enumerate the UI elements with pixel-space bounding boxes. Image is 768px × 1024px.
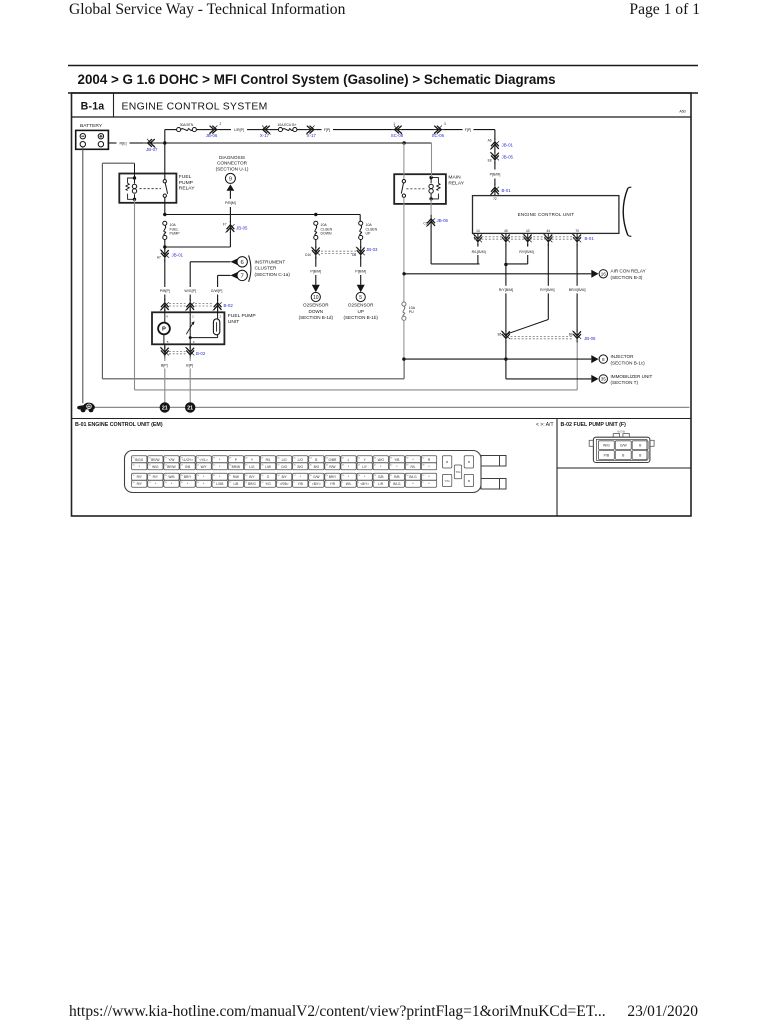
svg-text:BR/W: BR/W <box>232 465 240 469</box>
svg-text:2: 2 <box>220 122 222 126</box>
svg-text:Y/G: Y/G <box>445 479 451 483</box>
svg-text:JB-05: JB-05 <box>502 155 514 160</box>
svg-text:JB-05: JB-05 <box>437 218 449 223</box>
svg-text:D10: D10 <box>305 253 311 257</box>
svg-text:B/LG: B/LG <box>393 482 401 486</box>
svg-text:L/R[P]: L/R[P] <box>234 128 244 132</box>
svg-text:L/W: L/W <box>265 465 271 469</box>
svg-text:B: B <box>446 460 448 464</box>
svg-text:G/BR: G/BR <box>329 458 337 462</box>
svg-text:B-02: B-02 <box>224 303 234 308</box>
svg-text:A7: A7 <box>157 255 161 259</box>
svg-text:DIAGNOSIS: DIAGNOSIS <box>219 155 245 160</box>
svg-text:P[B/M]: P[B/M] <box>490 173 501 177</box>
svg-text:70: 70 <box>575 229 579 233</box>
svg-text:9: 9 <box>229 176 232 182</box>
svg-text:B/O: B/O <box>314 465 320 469</box>
svg-text:R/Y: R/Y <box>137 482 143 486</box>
svg-text:X-17: X-17 <box>307 133 317 138</box>
svg-text:UP: UP <box>358 309 364 314</box>
svg-text:FUEL PUMP: FUEL PUMP <box>228 313 256 319</box>
svg-text:JB-05: JB-05 <box>236 225 248 230</box>
svg-text:L/O: L/O <box>298 458 304 462</box>
svg-text:B5: B5 <box>498 332 502 336</box>
svg-text:MAIN: MAIN <box>448 175 461 181</box>
svg-text:L/R: L/R <box>378 482 384 486</box>
svg-text:2004 > G 1.6 DOHC > MFI Contro: 2004 > G 1.6 DOHC > MFI Control System (… <box>78 72 556 87</box>
svg-text:10A ECU B+: 10A ECU B+ <box>277 123 296 127</box>
svg-text:JB-01: JB-01 <box>172 252 184 257</box>
svg-text:35: 35 <box>601 377 607 382</box>
svg-text:B/O/B: B/O/B <box>617 430 625 434</box>
svg-text:B[P]: B[P] <box>186 364 193 368</box>
svg-text:C6: C6 <box>423 221 427 225</box>
svg-text:(SECTION T): (SECTION T) <box>611 380 639 385</box>
svg-text:<R/B>: <R/B> <box>280 482 289 486</box>
svg-text:B/Y: B/Y <box>282 475 288 479</box>
svg-text:<Y/L>: <Y/L> <box>199 458 208 462</box>
svg-text:CONNECTOR: CONNECTOR <box>217 161 248 166</box>
svg-text:<B/Y>: <B/Y> <box>312 482 321 486</box>
svg-text:W/G: W/G <box>378 458 385 462</box>
svg-text:P/B: P/B <box>604 454 610 458</box>
svg-text:W/Y: W/Y <box>201 465 208 469</box>
svg-text:R/L[B/M]: R/L[B/M] <box>472 250 486 254</box>
svg-text:W/G: W/G <box>603 444 610 448</box>
svg-text:L/B: L/B <box>233 482 238 486</box>
svg-text:UP: UP <box>366 232 372 236</box>
svg-text:B/G: B/G <box>298 465 304 469</box>
svg-text:B-01 ENGINE CONTROL UNIT (EM): B-01 ENGINE CONTROL UNIT (EM) <box>75 422 163 428</box>
svg-text:R/L: R/L <box>266 458 271 462</box>
svg-text:R/Y[B/M]: R/Y[B/M] <box>540 288 554 292</box>
svg-text:W/B: W/B <box>168 475 174 479</box>
svg-text:B-02 FUEL PUMP UNIT (F): B-02 FUEL PUMP UNIT (F) <box>561 422 627 428</box>
svg-text:44: 44 <box>547 229 551 233</box>
svg-text:L/Y: L/Y <box>362 465 368 469</box>
svg-text:B6: B6 <box>569 332 573 336</box>
svg-text:P: P <box>235 458 237 462</box>
svg-text:21: 21 <box>162 405 168 411</box>
svg-text:BATTERY: BATTERY <box>80 123 103 129</box>
svg-text:F[P]: F[P] <box>324 128 331 132</box>
svg-text:(SECTION B-1d): (SECTION B-1d) <box>299 315 334 320</box>
svg-text:B-1a: B-1a <box>81 101 105 113</box>
svg-text:P/B[M]: P/B[M] <box>225 201 236 205</box>
svg-text:RELAY: RELAY <box>179 186 195 192</box>
svg-text:L: L <box>348 458 350 462</box>
svg-text:(SECTION B-3): (SECTION B-3) <box>611 275 643 280</box>
svg-text:DOWN: DOWN <box>309 309 324 314</box>
svg-text:Y/B: Y/B <box>298 482 303 486</box>
svg-text:(SECTION C-1a): (SECTION C-1a) <box>255 272 291 277</box>
svg-text:G/W: G/W <box>313 475 319 479</box>
svg-text:Y/G: Y/G <box>265 482 271 486</box>
svg-text:https://www.kia-hotline.com/ma: https://www.kia-hotline.com/manualV2/con… <box>69 1003 606 1020</box>
svg-text:R/Y: R/Y <box>153 475 159 479</box>
svg-text:Y/B: Y/B <box>394 458 399 462</box>
svg-text:< >: A/T: < >: A/T <box>536 422 554 428</box>
svg-text:B/Y: B/Y <box>249 475 255 479</box>
svg-text:IMMOBILIZER UNIT: IMMOBILIZER UNIT <box>611 374 653 379</box>
svg-text:P[B/M]: P[B/M] <box>310 270 321 274</box>
svg-text:R/W: R/W <box>329 465 335 469</box>
svg-text:JB-06: JB-06 <box>206 133 218 138</box>
svg-text:ENGINE CONTROL UNIT: ENGINE CONTROL UNIT <box>518 212 575 217</box>
svg-text:10: 10 <box>313 295 319 301</box>
svg-text:O2SENSOR: O2SENSOR <box>303 303 329 308</box>
svg-text:G/O: G/O <box>281 465 287 469</box>
svg-text:16: 16 <box>601 271 607 276</box>
svg-text:CLUSTER: CLUSTER <box>255 266 277 271</box>
svg-text:L/G: L/G <box>282 458 288 462</box>
svg-text:3: 3 <box>444 122 446 126</box>
svg-text:RELAY: RELAY <box>448 180 464 186</box>
svg-text:72: 72 <box>493 197 497 201</box>
svg-text:(SECTION B-1c): (SECTION B-1c) <box>611 360 646 365</box>
svg-text:P: P <box>162 327 166 333</box>
svg-text:5: 5 <box>359 295 362 301</box>
svg-text:O/B: O/B <box>185 465 191 469</box>
svg-text:BR/W: BR/W <box>151 458 159 462</box>
svg-text:<L/GY>: <L/GY> <box>182 458 193 462</box>
svg-text:P[B/M]: P[B/M] <box>355 270 366 274</box>
svg-text:G/W[P]: G/W[P] <box>211 289 223 293</box>
svg-text:JB-01: JB-01 <box>502 143 514 148</box>
svg-text:B: B <box>468 479 470 483</box>
svg-text:PU: PU <box>409 310 414 314</box>
svg-text:B: B <box>315 458 317 462</box>
svg-text:DOWN: DOWN <box>321 232 333 236</box>
svg-text:O2SENSOR: O2SENSOR <box>348 303 374 308</box>
svg-text:A6D: A6D <box>679 110 686 114</box>
svg-text:(SECTION B-1b): (SECTION B-1b) <box>343 315 378 320</box>
svg-text:G/W: G/W <box>620 444 628 448</box>
svg-text:1: 1 <box>393 122 395 126</box>
svg-text:INSTRUMENT: INSTRUMENT <box>255 259 286 264</box>
svg-text:FUEL: FUEL <box>179 174 192 180</box>
svg-text:E8: E8 <box>488 159 492 163</box>
svg-text:Y/R: Y/R <box>330 482 336 486</box>
svg-text:BR/G: BR/G <box>248 482 256 486</box>
svg-text:BR/X[B/M]: BR/X[B/M] <box>569 288 586 292</box>
svg-text:L/GB: L/GB <box>216 482 223 486</box>
svg-text:23/01/2020: 23/01/2020 <box>627 1003 698 1020</box>
svg-text:Y/W: Y/W <box>168 458 174 462</box>
svg-text:L/G: L/G <box>249 465 255 469</box>
svg-text:A6: A6 <box>488 139 492 143</box>
svg-text:JB-03: JB-03 <box>366 247 378 252</box>
svg-text:B-01: B-01 <box>585 236 595 241</box>
svg-text:JB-05: JB-05 <box>584 336 596 341</box>
svg-text:ENGINE CONTROL SYSTEM: ENGINE CONTROL SYSTEM <box>122 101 268 112</box>
svg-text:B/GG: B/GG <box>135 458 143 462</box>
svg-text:F[P]: F[P] <box>465 128 472 132</box>
svg-text:W/L: W/L <box>346 482 352 486</box>
svg-text:W/G[P]: W/G[P] <box>184 289 196 293</box>
svg-text:14: 14 <box>476 229 480 233</box>
svg-text:R/L: R/L <box>410 465 415 469</box>
svg-text:B[P]: B[P] <box>161 364 168 368</box>
svg-text:SC-06: SC-06 <box>391 133 404 138</box>
svg-text:Page 1 of 1: Page 1 of 1 <box>629 1 700 18</box>
svg-text:INJECTOR: INJECTOR <box>611 354 635 359</box>
svg-text:B/LG: B/LG <box>409 475 417 479</box>
svg-text:T/G: T/G <box>456 470 462 474</box>
svg-text:PUMP: PUMP <box>179 180 193 186</box>
svg-text:X-17: X-17 <box>260 133 270 138</box>
svg-text:21: 21 <box>187 405 193 411</box>
svg-text:(SECTION U-1): (SECTION U-1) <box>216 166 249 171</box>
svg-text:G/B: G/B <box>378 475 384 479</box>
svg-text:P/B[P]: P/B[P] <box>160 289 170 293</box>
svg-text:B-02: B-02 <box>196 351 206 356</box>
svg-text:8: 8 <box>602 357 605 362</box>
svg-text:R/Y[B/M]: R/Y[B/M] <box>519 250 533 254</box>
svg-text:R/Y[B/M]: R/Y[B/M] <box>499 288 513 292</box>
svg-text:W/G: W/G <box>152 465 159 469</box>
svg-text:B-01: B-01 <box>502 188 512 193</box>
svg-text:43: 43 <box>526 229 530 233</box>
svg-text:F7: F7 <box>223 222 227 226</box>
svg-text:R/B: R/B <box>394 475 399 479</box>
svg-text:<B/Y>: <B/Y> <box>360 482 369 486</box>
svg-text:R[E]: R[E] <box>120 142 127 146</box>
svg-text:AIR CON RELAY: AIR CON RELAY <box>611 269 646 274</box>
svg-text:PUMP: PUMP <box>170 232 181 236</box>
svg-text:JB-07: JB-07 <box>146 147 158 152</box>
svg-text:45: 45 <box>504 229 508 233</box>
svg-text:BR/Y: BR/Y <box>329 475 337 479</box>
svg-text:R/W: R/W <box>233 475 239 479</box>
svg-text:UNIT: UNIT <box>228 319 239 325</box>
svg-text:SC-06: SC-06 <box>432 133 445 138</box>
svg-text:BR/Y: BR/Y <box>184 475 192 479</box>
svg-text:30A BTN: 30A BTN <box>180 123 194 127</box>
svg-text:B: B <box>468 460 470 464</box>
svg-text:Global Service Way - Technical: Global Service Way - Technical Informati… <box>69 1 346 18</box>
svg-text:7: 7 <box>241 274 244 280</box>
svg-text:R/Y: R/Y <box>137 475 143 479</box>
svg-text:BR/W: BR/W <box>167 465 175 469</box>
